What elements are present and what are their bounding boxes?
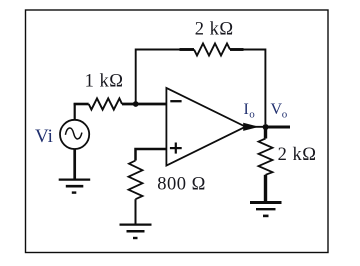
- wire output node down to load resistor: [264, 127, 267, 139]
- wire from source top to 1k resistor: [74, 103, 76, 120]
- svg-text:2 kΩ: 2 kΩ: [195, 20, 234, 40]
- ground below 800 Ohm: [120, 225, 152, 238]
- wire feedback right vertical down to output node: [244, 50, 266, 125]
- svg-text:o: o: [282, 109, 288, 121]
- svg-text:V: V: [271, 101, 283, 118]
- node junction at inverting input: [133, 101, 139, 107]
- svg-text:o: o: [249, 109, 255, 121]
- op-amp U1: [166, 88, 245, 166]
- op-amp minus pin: [170, 100, 181, 102]
- wire output stub right: [266, 126, 291, 129]
- svg-text:Vi: Vi: [35, 126, 53, 147]
- svg-text:800 Ω: 800 Ω: [157, 174, 206, 194]
- resistor R1 1 kOhm: [89, 98, 122, 109]
- wire load resistor to ground: [264, 175, 267, 201]
- wire op-amp plus input: [136, 149, 167, 161]
- resistor 800 Ohm: [129, 161, 143, 200]
- wire 800 Ohm to ground: [135, 199, 137, 224]
- wire from 1k to op-amp minus input: [122, 103, 167, 106]
- op-amp plus pin: [170, 143, 182, 154]
- resistor 2 kOhm feedback: [180, 44, 244, 56]
- source Vi: [60, 120, 89, 149]
- svg-text:I: I: [244, 101, 249, 118]
- current arrow Io: [244, 123, 258, 130]
- wire from source bottom to ground: [73, 149, 76, 179]
- ground below load resistor: [250, 203, 282, 216]
- resistor 2 kOhm load: [259, 139, 273, 175]
- wire op-amp output: [246, 126, 266, 128]
- svg-text:2 kΩ: 2 kΩ: [278, 145, 317, 165]
- output node Vo: [263, 124, 269, 130]
- ground below Vi: [59, 180, 90, 193]
- wire feedback left vertical: [136, 50, 180, 105]
- svg-text:1 kΩ: 1 kΩ: [85, 72, 124, 92]
